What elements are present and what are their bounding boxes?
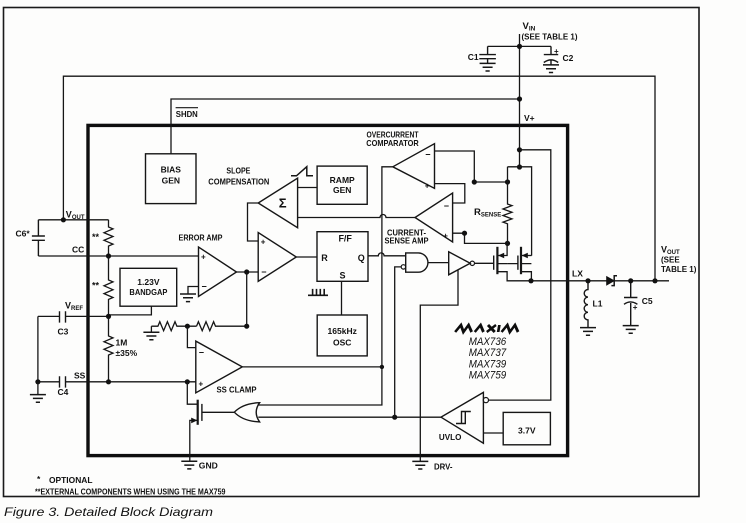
error amp U2 xyxy=(179,233,237,297)
oscillator block 165kHz OSC xyxy=(317,315,367,356)
svg-text:3.7V: 3.7V xyxy=(518,426,536,436)
node VOUT (right) terminal label xyxy=(661,245,697,274)
svg-text:+: + xyxy=(443,232,448,241)
svg-text:TABLE 1): TABLE 1) xyxy=(661,265,697,274)
svg-text:−: − xyxy=(444,201,449,211)
ground (C5) xyxy=(623,326,639,334)
wire NAND inverted input from UVLO xyxy=(395,267,402,417)
wire VREF rail xyxy=(38,315,109,317)
wire SHDN net (from VIN rail to BIAS GEN) xyxy=(171,99,520,154)
wire UVLO output to XOR bottom input xyxy=(258,416,441,418)
wire CC rail into error amp + input xyxy=(38,255,198,257)
wire F/F S input from OSC xyxy=(341,281,343,315)
junction CS+ node xyxy=(462,231,467,236)
svg-text:DRV-: DRV- xyxy=(434,461,453,471)
svg-text:SS CLAMP: SS CLAMP xyxy=(217,385,257,395)
svg-text:Q: Q xyxy=(358,253,365,263)
svg-text:MAX739: MAX739 xyxy=(469,358,507,370)
resistor 1M xyxy=(104,316,113,381)
wire XOR top input from overcurrent comparator xyxy=(258,167,393,405)
junction SS clamp output / overcurrent line xyxy=(380,365,384,369)
svg-text:**EXTERNAL COMPONENTS WHEN USI: **EXTERNAL COMPONENTS WHEN USING THE MAX… xyxy=(35,486,226,496)
svg-text:SENSE AMP: SENSE AMP xyxy=(385,236,429,246)
svg-text:L1: L1 xyxy=(593,299,603,309)
svg-text:F/F: F/F xyxy=(338,233,352,243)
diode D1 (schottky) xyxy=(607,276,617,286)
op-amp sigma summer (slope compensation) xyxy=(258,178,297,228)
ground DRV- pin xyxy=(412,461,428,469)
wire VREF/SS left vertical xyxy=(37,316,39,381)
node SHDN label xyxy=(176,108,198,119)
svg-text:1M: 1M xyxy=(116,338,128,348)
svg-text:+: + xyxy=(201,252,206,261)
svg-text:+: + xyxy=(633,303,638,312)
wire V+ to RSENSE top and right FET drain xyxy=(508,167,532,256)
op-amp IC U1 (MAX736/737/739/759 boundary box) xyxy=(88,125,568,455)
inductor L1 xyxy=(584,281,588,328)
svg-text:+: + xyxy=(554,47,559,56)
svg-text:C3: C3 xyxy=(58,327,69,337)
svg-text:Figure 3. Detailed Block Diagr: Figure 3. Detailed Block Diagram xyxy=(4,505,213,519)
junction SS/1M xyxy=(106,379,111,384)
wire SS clamp comparator output xyxy=(242,366,382,368)
junction Rsense bottom xyxy=(505,241,510,246)
svg-text:C1: C1 xyxy=(468,52,479,62)
svg-text:+: + xyxy=(425,182,430,191)
ground (error amp - input) xyxy=(180,294,196,302)
junction OC-/Rsense node xyxy=(472,179,477,184)
junction VREF node xyxy=(106,314,111,319)
gate NAND (drive logic) xyxy=(401,253,428,272)
flip-flop block F/F xyxy=(317,232,368,282)
wire VOUT top rail (left Vout node up over the top to output terminal) xyxy=(63,76,655,281)
svg-text:R: R xyxy=(321,253,328,263)
junction feedback divider tap xyxy=(185,324,190,329)
resistor R** (CC to VREF) xyxy=(104,256,113,316)
svg-text:CC: CC xyxy=(72,245,84,255)
svg-text:MAX736: MAX736 xyxy=(469,336,507,348)
ground (feedback divider) xyxy=(150,326,152,332)
svg-text:Σ: Σ xyxy=(279,196,287,211)
junction VOUT terminal drop xyxy=(652,278,657,283)
junction C5/LX xyxy=(628,278,633,283)
svg-text:S: S xyxy=(340,270,346,280)
ground GND pin xyxy=(181,461,197,469)
op-amp overcurrent comparator xyxy=(393,144,435,191)
ground (C4 / left rail) xyxy=(37,382,39,395)
junction R**/CC xyxy=(106,253,111,258)
svg-text:SS: SS xyxy=(74,370,86,380)
junction error amp output / feedback xyxy=(244,269,249,274)
junction VOUT rail / top wire xyxy=(61,217,66,222)
wire sigma output to PWM + input xyxy=(248,203,259,241)
svg-text:−: − xyxy=(261,267,266,277)
svg-text:(SEE TABLE 1): (SEE TABLE 1) xyxy=(522,33,578,42)
op-amp PWM comparator xyxy=(258,233,296,282)
svg-text:1.23V: 1.23V xyxy=(137,277,160,287)
svg-text:OSC: OSC xyxy=(333,338,351,348)
clock waveform glyph xyxy=(308,289,328,295)
svg-text:BANDGAP: BANDGAP xyxy=(129,287,167,297)
svg-text:OPTIONAL: OPTIONAL xyxy=(49,475,93,485)
wire NAND output to driver buffer xyxy=(428,262,448,264)
svg-text:COMPARATOR: COMPARATOR xyxy=(366,138,419,148)
wire PWM output to F/F R input xyxy=(296,256,317,258)
driver buffer (inverting) xyxy=(449,252,475,275)
capacitor C6 xyxy=(32,220,45,256)
wire bandgap output to VREF node xyxy=(109,306,152,315)
svg-text:C5: C5 xyxy=(642,296,653,306)
wire VIN vertical into V+ pin xyxy=(519,34,521,167)
svg-text:±35%: ±35% xyxy=(116,348,138,358)
op-amp UVLO comparator xyxy=(439,392,489,443)
junction SS rail / clamp FET xyxy=(185,379,190,384)
slope ramp glyph xyxy=(291,167,313,176)
svg-text:BIAS: BIAS xyxy=(161,165,182,175)
junction Rsense top xyxy=(505,179,510,184)
resistor (feedback, right) xyxy=(197,322,247,331)
wire CS + input to RSENSE bottom xyxy=(453,233,508,243)
node VIN terminal label xyxy=(522,21,578,42)
wire OC + input / CS - input xyxy=(435,184,465,203)
svg-text:165kHz: 165kHz xyxy=(328,326,357,336)
wire VOUT left rail xyxy=(38,219,108,221)
wire DRV- net from driver xyxy=(420,270,458,462)
junction SHDN/VIN xyxy=(517,96,522,101)
capacitor C5 (polarized) xyxy=(624,281,637,326)
transistor Q2 (right P-FET) xyxy=(518,247,532,281)
svg-text:COMPENSATION: COMPENSATION xyxy=(208,176,269,186)
svg-text:+: + xyxy=(199,379,204,388)
svg-text:UVLO: UVLO xyxy=(439,432,462,442)
wire error amp - input to ground xyxy=(188,287,199,295)
wire ramp gen to sigma xyxy=(298,187,318,189)
svg-text:LX: LX xyxy=(572,269,583,279)
wire UVLO threshold input from 3.7V xyxy=(483,432,503,434)
svg-text:−: − xyxy=(202,282,207,292)
svg-text:**: ** xyxy=(92,281,100,291)
MAXIM logo xyxy=(455,325,519,332)
wire CS amp output to sigma (with hop) xyxy=(298,215,415,218)
svg-text:+: + xyxy=(261,237,266,246)
junction FET sources / LX xyxy=(528,278,533,283)
svg-text:SLOPE: SLOPE xyxy=(226,165,250,175)
svg-text:SHDN: SHDN xyxy=(176,109,198,119)
capacitor C4 xyxy=(60,376,66,387)
capacitor C3 xyxy=(60,311,66,322)
svg-text:ERROR AMP: ERROR AMP xyxy=(179,233,223,243)
reference block 3.7V xyxy=(503,412,550,444)
svg-text:**: ** xyxy=(92,232,100,242)
svg-text:RAMP: RAMP xyxy=(330,175,355,185)
svg-text:C2: C2 xyxy=(563,53,574,63)
junction feedback right node xyxy=(244,324,249,329)
resistor R** (VOUT to CC) xyxy=(104,220,113,256)
svg-text:(SEE: (SEE xyxy=(661,255,680,264)
wire buffer output to FET gates xyxy=(475,262,518,264)
wire SS rail into SS clamp + input xyxy=(38,381,196,383)
wire V+ to UVLO sense (down right side) xyxy=(489,150,551,400)
junction UVLO output / NAND branch xyxy=(392,415,397,420)
SS clamp comparator U3 xyxy=(196,341,257,394)
svg-text:GND: GND xyxy=(199,461,218,471)
resistor RSENSE xyxy=(503,182,512,243)
junction V+ lower tap xyxy=(517,164,522,169)
svg-text:MAX737: MAX737 xyxy=(469,347,507,359)
svg-text:GEN: GEN xyxy=(162,176,180,186)
svg-text:V+: V+ xyxy=(524,113,535,123)
svg-text:GEN: GEN xyxy=(333,185,351,195)
ground (L1) xyxy=(580,328,596,336)
wire XOR output to Q3 gate xyxy=(202,411,234,413)
svg-text:−: − xyxy=(199,348,204,358)
junction SS/C4 left xyxy=(35,379,40,384)
wire F/F Q output to NAND (with hop) xyxy=(368,253,406,256)
op-amp current-sense amp xyxy=(415,193,453,242)
wire error amp output to PWM comparator - input xyxy=(237,271,259,273)
wire C1/C2 input rail xyxy=(488,45,551,47)
resistor (feedback, left) xyxy=(151,322,196,331)
wire divider tap to SS clamp - input xyxy=(187,326,195,347)
junction VIN/C1C2 xyxy=(517,44,522,49)
bias generator block xyxy=(146,154,197,204)
capacitor C2 (polarized) xyxy=(544,46,558,65)
bandgap reference block 1.23V xyxy=(120,268,177,306)
junction L1/LX xyxy=(585,278,590,283)
gate XOR (SS clamp drive) xyxy=(234,403,259,422)
svg-text:−: − xyxy=(425,149,430,159)
wire LX output line xyxy=(531,280,669,282)
transistor Q1 (left P-FET) xyxy=(494,243,531,280)
svg-text:C6*: C6* xyxy=(16,229,31,239)
capacitor C1 xyxy=(479,46,496,63)
wire feedback vertical xyxy=(246,272,248,326)
ramp generator block xyxy=(317,166,367,204)
svg-text:C4: C4 xyxy=(58,387,69,397)
svg-text:MAX759: MAX759 xyxy=(469,370,507,382)
wire OC - input to RSENSE top xyxy=(435,151,508,182)
transistor Q3 (SS clamp FET) xyxy=(187,382,202,462)
junction V+ upper tap xyxy=(517,147,522,152)
